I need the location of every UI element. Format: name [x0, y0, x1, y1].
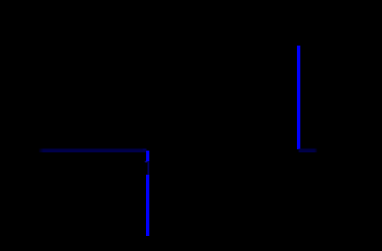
wire W3 (vertical, bright blue, lower segment) [146, 175, 149, 236]
wire lead (thin dim vertical segment between W2 and W3) [147, 162, 149, 175]
wire W1 (horizontal, left, dim double line) [39, 149, 146, 152]
wire W2 (vertical, bright blue, upper segment) [146, 151, 149, 162]
wire W4 (vertical, bright blue, right side) [297, 46, 300, 150]
wire W2 bottom foot [145, 161, 147, 162]
node A (junction of W1 and W2) [143, 149, 146, 150]
wire W1 left end fade [38, 146, 44, 154]
wire W5 right end fade [314, 146, 318, 154]
wire W5 (horizontal stub, right, dim double line) [299, 149, 317, 152]
